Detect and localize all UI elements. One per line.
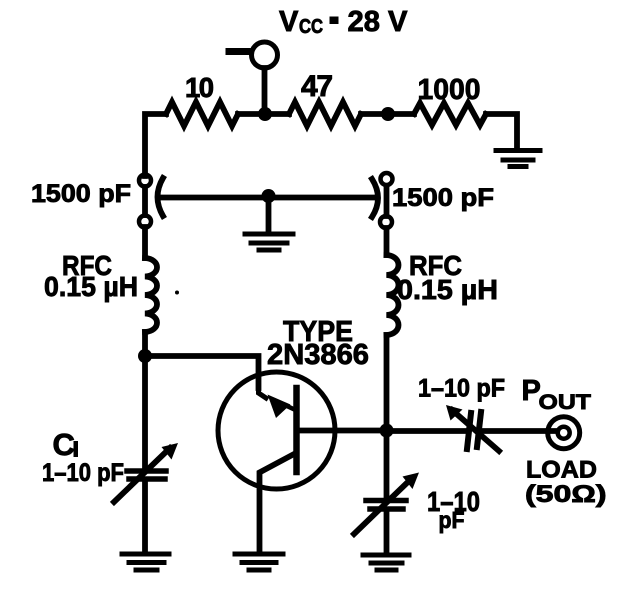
node right branch junction xyxy=(381,107,395,121)
svg-text:LOAD: LOAD xyxy=(526,457,597,484)
svg-text:28 V: 28 V xyxy=(348,6,409,38)
stray dot xyxy=(175,291,179,295)
label VCC = 28 V xyxy=(279,6,408,38)
wire node A to transistor top lead xyxy=(145,356,259,388)
wire between R10 and VCC node xyxy=(238,111,289,117)
wire top bus left corner xyxy=(145,114,166,176)
svg-text:10: 10 xyxy=(185,72,214,103)
resistor 47 xyxy=(289,102,361,126)
resistor 1000 xyxy=(414,103,486,125)
inductor RFC 0.15 uH right xyxy=(387,255,399,335)
node middle bus junction xyxy=(262,189,276,203)
capacitor 1500 pF left (feedthrough) xyxy=(139,175,163,228)
svg-text:OUT: OUT xyxy=(539,390,592,414)
node A xyxy=(138,349,152,363)
wire 1000 to right corner xyxy=(486,114,517,149)
minus dash at VCC terminal xyxy=(229,48,247,55)
inductor RFC 0.15 uH left xyxy=(145,258,157,332)
capacitor C1 variable 1-10 pF xyxy=(114,443,178,502)
node VCC junction xyxy=(258,107,272,121)
wire middle ground stem xyxy=(266,197,272,232)
svg-text:0.15 µH: 0.15 µH xyxy=(397,274,498,305)
svg-text:pF: pF xyxy=(439,507,465,533)
node B xyxy=(380,424,394,438)
wire right branch cap to RFC xyxy=(384,228,390,255)
wire cap to terminal xyxy=(483,428,557,434)
svg-text:47: 47 xyxy=(301,70,333,103)
svg-text:C: C xyxy=(53,427,75,462)
capacitor 1500 pF right (feedthrough) xyxy=(372,173,393,228)
wire left branch cap to RFC xyxy=(142,227,148,258)
svg-text:1500 pF: 1500 pF xyxy=(31,180,131,208)
wire left RFC to node A xyxy=(142,332,148,468)
svg-text:1–10 pF: 1–10 pF xyxy=(418,375,505,403)
wire C1 to ground xyxy=(142,482,148,552)
capacitor right shunt 1-10 pF variable xyxy=(354,473,419,535)
wire middle bus xyxy=(158,195,376,201)
wire shunt cap to ground xyxy=(384,512,390,553)
ground top-right xyxy=(496,151,540,167)
ground C1 xyxy=(122,554,169,570)
terminal P_OUT xyxy=(548,417,580,449)
svg-text:2N3866: 2N3866 xyxy=(267,339,369,371)
svg-text:V: V xyxy=(279,6,299,38)
wire VCC drop xyxy=(262,68,268,114)
power terminal VCC xyxy=(252,42,278,68)
svg-text:1000: 1000 xyxy=(418,74,481,106)
svg-text:1–10 pF: 1–10 pF xyxy=(42,459,124,487)
wire between R47 and right node xyxy=(361,111,414,117)
svg-text:CC: CC xyxy=(299,16,323,38)
wire right RFC to node B xyxy=(384,335,390,498)
svg-text:0.15 µH: 0.15 µH xyxy=(44,271,138,302)
svg-text:(50Ω): (50Ω) xyxy=(525,481,607,508)
ground middle xyxy=(245,234,293,250)
ground right xyxy=(363,555,409,570)
ground emitter xyxy=(235,554,283,570)
capacitor output coupling 1-10 pF variable xyxy=(446,405,499,451)
resistor 10 xyxy=(166,102,238,126)
wire collector/base to node B xyxy=(300,428,387,434)
transistor Q1 2N3866 xyxy=(218,372,335,552)
wire output line xyxy=(387,428,467,434)
svg-text:1500 pF: 1500 pF xyxy=(392,184,494,212)
